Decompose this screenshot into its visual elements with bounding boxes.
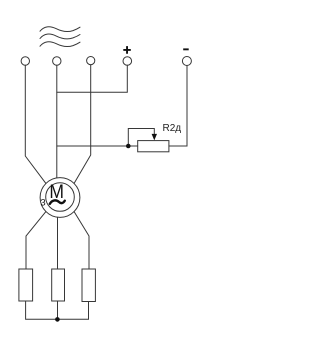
wire: from - terminal down to rheostat right end xyxy=(169,66,187,147)
wire: rheostat left lead across to phase 2 wire xyxy=(57,145,138,147)
terminal 4 (DC +) xyxy=(123,57,132,66)
AC supply wavy symbol line 2 xyxy=(40,34,80,39)
- label of DC terminal xyxy=(183,48,189,50)
motor outer circle xyxy=(40,178,80,218)
wire: motor bottom-centre lead to resistor R2 xyxy=(57,217,59,269)
wire: phase 3 from terminal 3 down then diagonal to motor xyxy=(74,65,91,184)
AC supply wavy symbol line 3 xyxy=(40,42,80,47)
motor inner circle xyxy=(46,183,75,212)
motor tilde (AC) xyxy=(50,200,65,204)
resistor R2 body xyxy=(52,269,65,301)
wire: rheostat wiper loop up-left to junction xyxy=(128,129,154,147)
terminal 3 (AC phase) xyxy=(87,57,95,65)
terminal 2 (AC phase) xyxy=(53,57,61,65)
rheostat R2d body xyxy=(138,141,169,152)
terminal 1 (AC phase) xyxy=(21,57,29,65)
wire: from + terminal down and left to phase 2 wire xyxy=(57,65,128,92)
wire: phase 2 from terminal 2 straight down to motor top xyxy=(56,65,58,178)
wire: bottom common rail connecting resistor bottoms xyxy=(26,301,89,319)
+ label of DC terminal xyxy=(123,46,131,54)
terminal 5 (DC -) xyxy=(182,57,191,66)
resistor R3 body xyxy=(82,269,95,302)
junction dot at rheostat left lead xyxy=(126,144,131,149)
wire: resistor R2 bottom lead to rail xyxy=(57,301,59,319)
resistor R1 body xyxy=(19,269,33,301)
wire: phase 1 from terminal 1 down then diagonal to motor xyxy=(25,65,46,183)
AC supply wavy symbol line 1 xyxy=(40,27,80,32)
wire: motor bottom-left lead to resistor R1 xyxy=(26,212,46,269)
junction dot at bottom rail xyxy=(55,317,60,322)
rheostat wiper arrowhead xyxy=(152,134,157,141)
svg-text:R2д: R2д xyxy=(163,123,182,134)
svg-text:3: 3 xyxy=(40,197,45,208)
wire: motor bottom-right lead to resistor R3 xyxy=(74,212,89,269)
